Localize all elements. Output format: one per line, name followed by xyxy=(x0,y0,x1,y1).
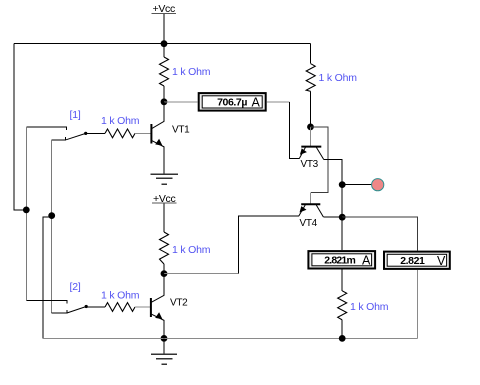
resistor R2 xyxy=(306,64,315,92)
svg-text:2.821: 2.821 xyxy=(400,255,425,267)
svg-text:VT4: VT4 xyxy=(300,218,318,229)
node junction top rail/R1 xyxy=(161,40,168,47)
wire VT4 base vertical (gray) xyxy=(310,192,312,204)
wire R2 bottom lead xyxy=(310,91,312,127)
transistor VT3 xyxy=(299,147,323,160)
wire bottom rail (gray) xyxy=(43,337,417,339)
wire VT3 collector to output xyxy=(324,159,343,184)
wire jog to bottom rail xyxy=(43,217,52,339)
svg-text:1 k Ohm: 1 k Ohm xyxy=(319,72,358,84)
wire R6 to VT2 base (gray) xyxy=(135,306,150,308)
wire ground G2 stub xyxy=(163,338,165,354)
switch S2 pole xyxy=(85,305,88,308)
svg-text:A: A xyxy=(362,253,371,267)
wire VT3 base (gray) xyxy=(310,127,312,146)
switch S2 lever xyxy=(67,307,86,313)
node junction R4/bottom rail xyxy=(339,335,346,342)
wire up to VT4 emitter xyxy=(239,216,299,274)
wire A2 bottom to R4 xyxy=(341,270,343,291)
svg-text:A: A xyxy=(252,95,261,109)
node junction VT2 emitter/bottom rail xyxy=(161,335,168,342)
wire R3 bottom lead xyxy=(163,264,165,274)
wire A1 to VT3 emitter xyxy=(290,102,300,159)
svg-text:1 k Ohm: 1 k Ohm xyxy=(172,66,211,78)
transistor VT2 xyxy=(151,295,164,320)
wire top rail to R2 xyxy=(310,44,312,64)
resistor R4 xyxy=(338,291,347,320)
output terminal bubble xyxy=(372,179,384,191)
ammeter A2 xyxy=(308,251,375,268)
resistor R6 xyxy=(105,303,135,312)
svg-text:[2]: [2] xyxy=(70,281,81,293)
wire node down to A2 xyxy=(341,217,343,250)
node junction R1/VT1/A1 xyxy=(161,98,168,105)
transistor VT4 xyxy=(299,204,324,217)
svg-text:1 k Ohm: 1 k Ohm xyxy=(172,244,211,256)
ground G2 xyxy=(151,354,177,364)
wire S1 bottom contact vertical (gray) xyxy=(51,140,53,313)
svg-text:VT3: VT3 xyxy=(301,159,319,170)
resistor R3 xyxy=(160,232,169,264)
node junction R2/VT3 base xyxy=(307,124,314,131)
wire VT2 collector node right (gray) xyxy=(164,273,239,275)
switch S1 bottom contact xyxy=(52,137,66,140)
svg-text:[1]: [1] xyxy=(70,109,81,121)
wire V1 bottom to rail (gray) xyxy=(417,270,419,339)
node junction left frame xyxy=(23,207,30,214)
switch S2 bottom contact xyxy=(52,310,67,313)
ammeter A1 xyxy=(199,93,266,111)
transistor VT1 xyxy=(151,121,164,147)
wire S1 top contact vertical (gray) xyxy=(25,127,27,300)
switch S1 top contact xyxy=(26,127,66,130)
wire R4 bottom lead xyxy=(341,320,343,339)
switch S1 pole xyxy=(84,132,87,135)
wire node to voltmeter branch xyxy=(342,217,417,250)
svg-text:VT2: VT2 xyxy=(170,298,188,309)
resistor R5 xyxy=(105,129,135,138)
wire VT1 collector xyxy=(163,102,165,122)
svg-text:V: V xyxy=(437,254,446,268)
switch S1 lever xyxy=(66,133,86,139)
wire output to terminal xyxy=(342,184,371,186)
resistor R1 xyxy=(160,57,169,86)
wire top rail xyxy=(14,43,311,45)
svg-text:1 k Ohm: 1 k Ohm xyxy=(101,290,140,302)
wire S2 pole to R6 xyxy=(86,306,105,308)
node junction R3/VT2 collector xyxy=(161,270,168,277)
wire VT4 collector to node xyxy=(323,216,342,218)
voltmeter V1 xyxy=(384,252,450,269)
wire R5 to VT1 base (gray) xyxy=(135,132,151,134)
power +Vcc top label xyxy=(152,3,177,15)
svg-text:2.821m: 2.821m xyxy=(324,254,355,266)
svg-text:1 k Ohm: 1 k Ohm xyxy=(101,115,140,127)
wire Vcc1 stub xyxy=(163,14,165,44)
svg-text:VT1: VT1 xyxy=(172,125,190,136)
svg-text:706.7µ: 706.7µ xyxy=(217,96,247,108)
resistor R1 leads xyxy=(163,44,165,57)
svg-text:1 k Ohm: 1 k Ohm xyxy=(350,301,389,313)
node junction switch column xyxy=(48,212,55,219)
wire left frame vertical xyxy=(14,44,24,210)
wire output node down xyxy=(341,185,343,218)
node junction VT4 collector xyxy=(339,214,346,221)
node junction output xyxy=(339,181,346,188)
power +Vcc mid label xyxy=(152,193,177,205)
wire Vcc2 stub / R3 top lead xyxy=(163,203,165,232)
wire A1 left (gray) xyxy=(164,101,198,103)
wire VT2 collector xyxy=(163,274,165,296)
ground G1 xyxy=(151,174,178,184)
wire VT1 emitter xyxy=(163,147,165,175)
wire A1 right (gray) xyxy=(267,101,290,103)
switch S2 top contact xyxy=(26,300,67,303)
wire VT4 base elbow xyxy=(311,127,328,192)
wire S1 pole to R5 xyxy=(86,132,105,134)
wire VT2 emitter xyxy=(163,320,165,338)
